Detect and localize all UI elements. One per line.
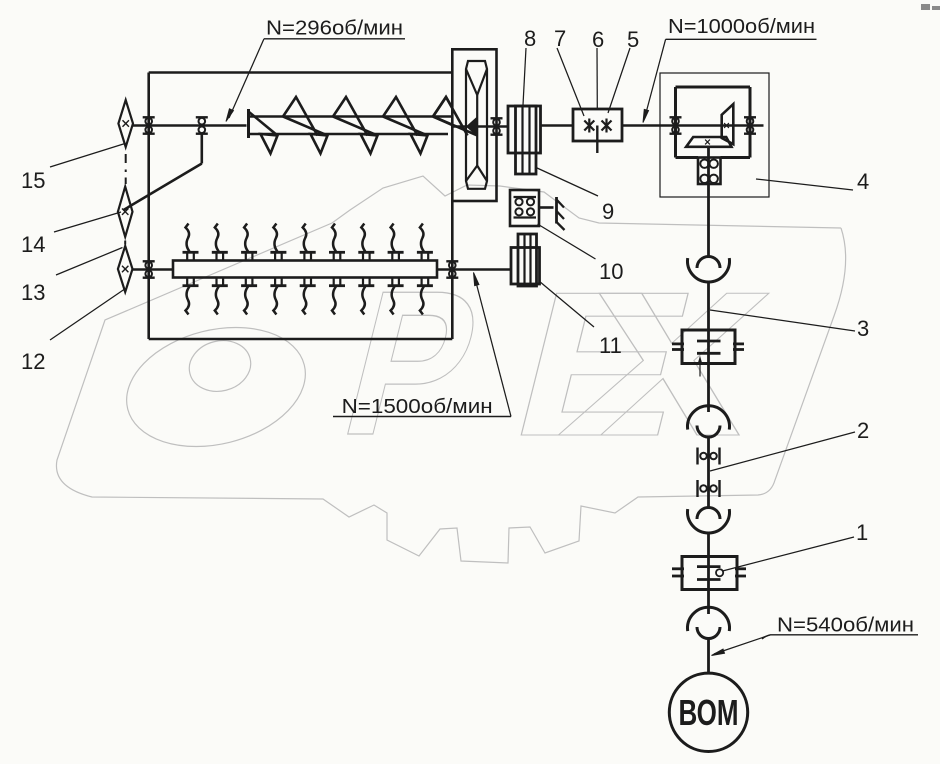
gearbox bearing right — [744, 117, 756, 133]
label N=296 — [226, 18, 405, 122]
label 4 — [857, 169, 869, 194]
svg-text:1: 1 — [856, 520, 868, 545]
small arrow under link 3 — [698, 358, 702, 377]
svg-text:5: 5 — [627, 27, 639, 52]
beater shaft left — [133, 268, 174, 271]
label 11 — [539, 281, 622, 358]
shaft link3 to J2 — [707, 364, 710, 413]
belt run from auger shaft down to pulley 14 — [124, 134, 202, 210]
shaft J4 to PTO circle — [707, 638, 710, 674]
label 1 — [723, 520, 869, 571]
label 3 — [710, 310, 869, 341]
label 7 — [554, 26, 584, 116]
bevel gear horizontal — [686, 137, 731, 147]
beater bar — [173, 261, 437, 278]
label N=1000 — [643, 16, 817, 123]
watermark letter P — [325, 249, 499, 479]
watermark letter O — [114, 310, 318, 465]
beater shaft right — [437, 268, 511, 271]
frame of pickup housing — [149, 73, 453, 340]
variator pulley 15 — [118, 100, 133, 147]
label 8 — [523, 26, 536, 105]
shaft coupling8 to bevel box — [541, 124, 574, 127]
label 5 — [608, 27, 639, 113]
slip clutch 8 (driving half) — [508, 106, 541, 174]
fan pulley on auger shaft — [467, 118, 477, 135]
vertical shaft gearbox to joint — [707, 147, 710, 258]
svg-text:4: 4 — [857, 169, 869, 194]
safety clutch 1 — [672, 557, 746, 590]
svg-text:N=540об/мин: N=540об/мин — [777, 615, 914, 637]
label N=540 — [712, 615, 919, 656]
shaft through fan box — [452, 125, 508, 128]
gearbox 4 housing — [676, 87, 751, 158]
watermark letter X — [545, 249, 788, 479]
label 6 — [592, 27, 604, 108]
svg-text:13: 13 — [21, 280, 45, 305]
beater spring tines — [183, 224, 433, 315]
svg-text:12: 12 — [21, 349, 45, 374]
svg-text:8: 8 — [524, 26, 536, 51]
svg-text:N=1500об/мин: N=1500об/мин — [342, 396, 493, 418]
svg-text:3: 3 — [857, 316, 869, 341]
variator pulley 14 — [118, 187, 133, 237]
svg-text:7: 7 — [554, 26, 566, 51]
shaft J2 to J3 with bearings — [707, 436, 710, 508]
bearing on fan box right wall — [491, 118, 503, 134]
universal joint J2 — [688, 406, 730, 437]
label 12 — [21, 290, 124, 375]
universal joint J3 — [688, 508, 730, 533]
svg-text:10: 10 — [599, 259, 623, 284]
gearbox input shaft — [660, 124, 764, 127]
watermark letter E — [494, 249, 714, 479]
small dash 14-13 — [124, 241, 126, 245]
universal joint J1 — [688, 257, 730, 282]
watermark gear outline — [56, 176, 845, 563]
PTO (BOM) circle — [669, 673, 747, 751]
bearing on frame, auger shaft — [143, 117, 155, 133]
svg-text:2: 2 — [857, 418, 869, 443]
label 13 — [21, 248, 123, 306]
bearing 2 on auger shaft — [196, 117, 208, 133]
svg-text:P: P — [325, 249, 499, 479]
gear block 10 — [510, 190, 539, 226]
svg-text:15: 15 — [21, 168, 45, 193]
slip clutch 11 on beater shaft — [511, 234, 540, 286]
link to fixed support — [539, 206, 554, 209]
svg-text:6: 6 — [592, 27, 604, 52]
label 10 — [538, 224, 624, 284]
variator pulley 13 — [118, 246, 133, 292]
label N=1500 — [333, 273, 511, 419]
auger (screw conveyor) — [249, 97, 478, 154]
bearing V2 on pto shaft — [698, 480, 720, 497]
bevel gear vertical — [722, 104, 734, 144]
gearbox 4 outer case — [660, 73, 769, 197]
bearing on frame right, beater shaft — [446, 261, 458, 277]
dash-dot link 15-14 — [125, 154, 127, 184]
shaft J1 to telescopic link 3 — [707, 282, 710, 364]
watermark specks top-right — [921, 4, 940, 10]
gearbox bearing left — [670, 117, 682, 133]
shaft J3 to safety clutch 1 — [707, 533, 710, 590]
label 14 — [21, 212, 121, 257]
svg-text:ВОМ: ВОМ — [679, 692, 739, 733]
label 2 — [710, 418, 869, 471]
telescopic splined link 3 — [672, 330, 744, 364]
svg-text:11: 11 — [599, 333, 622, 358]
label 9 — [536, 168, 614, 225]
gearbox output bearing block — [698, 158, 721, 185]
svg-text:14: 14 — [21, 232, 45, 257]
bearing on frame, beater shaft — [143, 261, 155, 277]
fan belt-drive box — [452, 49, 496, 201]
svg-text:N=296об/мин: N=296об/мин — [266, 18, 403, 40]
svg-text:9: 9 — [602, 199, 614, 224]
label 15 — [21, 144, 125, 194]
bearing V1 on pto shaft — [698, 448, 720, 465]
gearbox with star wheels 5,6,7 — [573, 109, 660, 153]
universal joint J4 — [688, 607, 730, 638]
fixed support (frame) symbol — [557, 197, 565, 230]
fan belt loop — [466, 61, 487, 189]
svg-text:N=1000об/мин: N=1000об/мин — [668, 16, 815, 38]
leader to label 4 — [756, 179, 853, 190]
shaft clutch1 to J4 — [707, 590, 710, 615]
auger drive shaft — [133, 124, 247, 127]
